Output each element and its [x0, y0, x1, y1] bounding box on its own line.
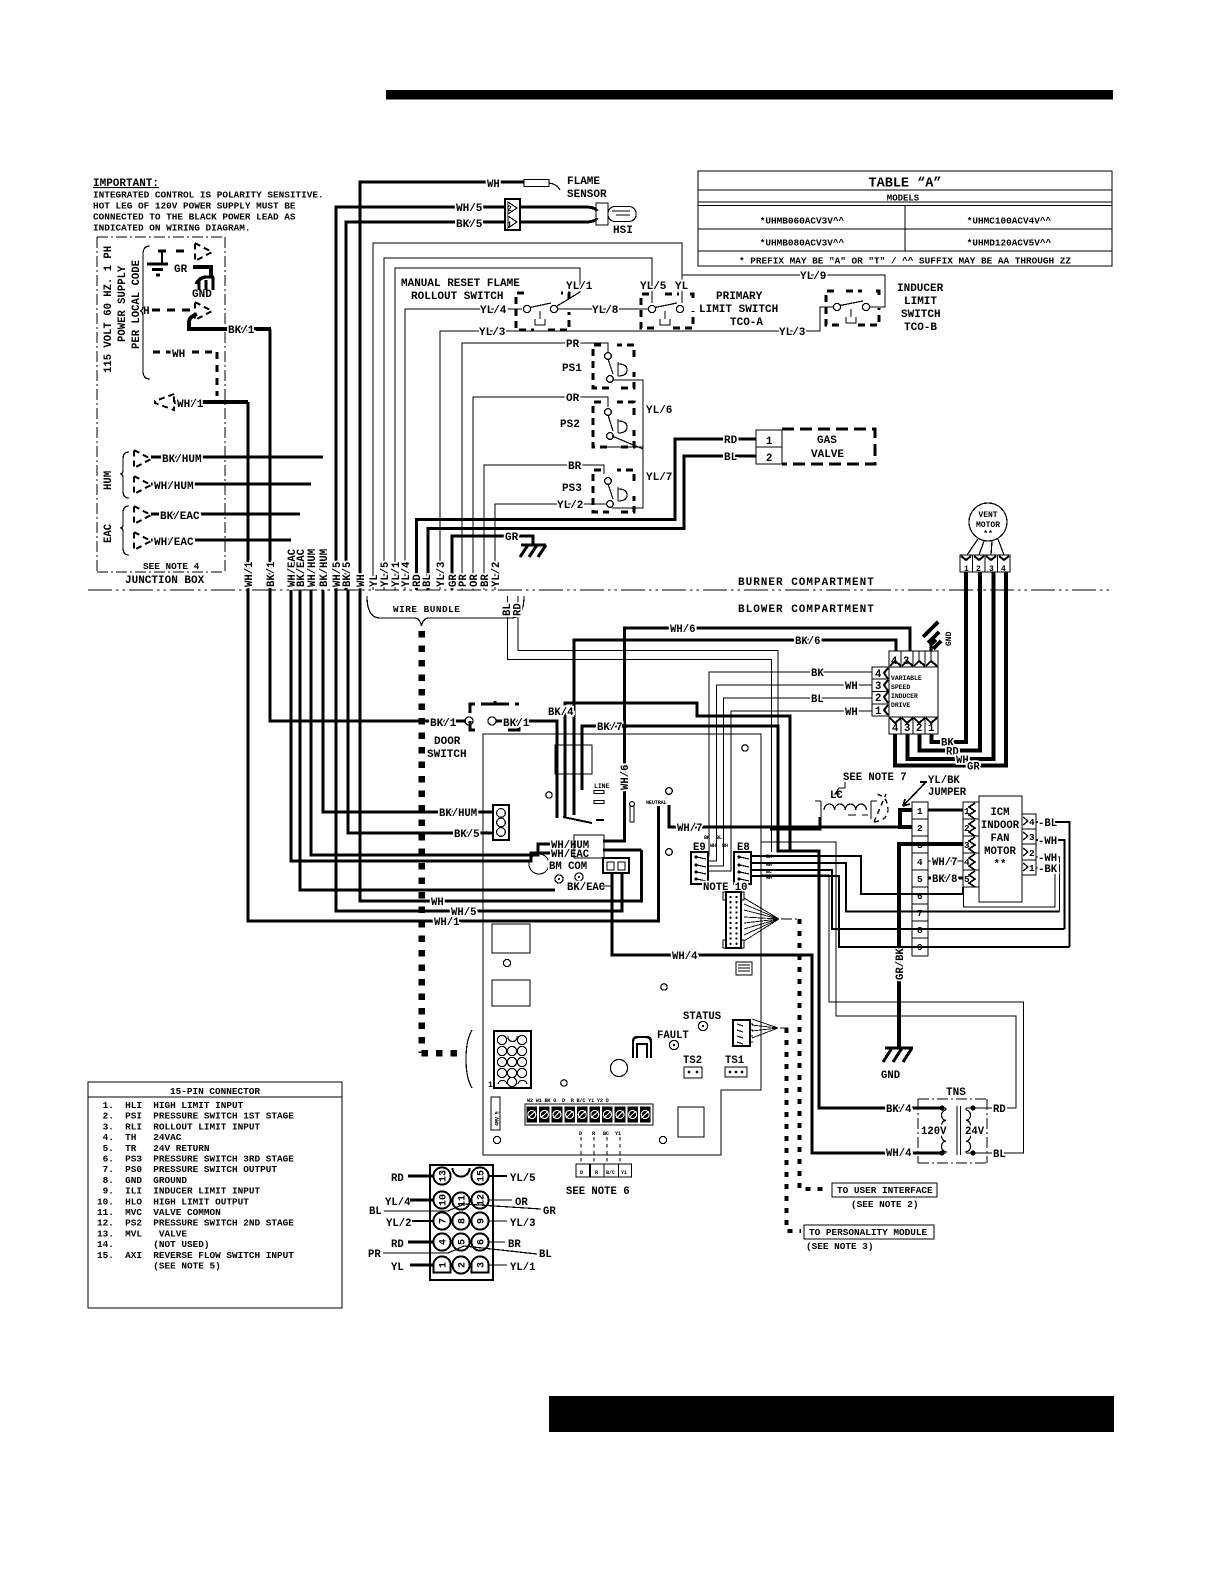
svg-text:D: D	[579, 1131, 582, 1137]
jumper wire pins 1-2	[900, 810, 912, 827]
wire BK/1 junction to door switch	[270, 329, 466, 721]
svg-text:YL/9: YL/9	[800, 271, 826, 283]
chassis dashed line vertical	[418, 631, 425, 1053]
wire WH/5 left entry	[336, 590, 622, 911]
svg-text:LIMIT SWITCH: LIMIT SWITCH	[699, 304, 778, 316]
wire YL pin1	[410, 1264, 433, 1267]
svg-text:GR/BK: GR/BK	[895, 948, 907, 980]
connector plug BK/HUM	[134, 450, 151, 468]
wire YL (to TCO-A / YL/9)	[373, 243, 682, 590]
inducer drive top connector	[889, 651, 938, 668]
svg-text:TS2: TS2	[683, 1055, 702, 1067]
svg-text:7. PS0 PRESSURE SWITCH OUTPU: 7. PS0 PRESSURE SWITCH OUTPUT	[97, 1164, 277, 1175]
wire BK icm1	[964, 868, 1056, 907]
wire WH/HUM left entry	[311, 590, 550, 855]
pressure switch PS3	[562, 470, 634, 512]
svg-text:4: 4	[892, 723, 899, 735]
svg-text:GND: GND	[945, 631, 954, 646]
svg-text:**: **	[983, 530, 993, 539]
svg-text:YL/3: YL/3	[779, 327, 806, 339]
svg-text:3. RLI ROLLOUT LIMIT INPUT: 3. RLI ROLLOUT LIMIT INPUT	[97, 1121, 261, 1132]
board screw holes	[546, 792, 552, 798]
bracket EAC	[120, 506, 129, 555]
svg-text:(SEE NOTE 5): (SEE NOTE 5)	[97, 1261, 221, 1272]
wire BL to gas valve	[428, 456, 756, 590]
svg-text:2: 2	[964, 823, 970, 834]
table A	[698, 171, 1112, 267]
svg-text:120V: 120V	[921, 1126, 947, 1138]
wire WH icm3	[1036, 840, 1065, 929]
svg-text:BR: BR	[508, 1239, 521, 1251]
svg-text:HOT LEG OF 120V POWER SUPPLY M: HOT LEG OF 120V POWER SUPPLY MUST BE	[93, 201, 296, 212]
svg-text:3: 3	[904, 723, 910, 735]
wire WH to drive 3	[708, 685, 872, 861]
svg-text:YL/2: YL/2	[557, 500, 583, 512]
svg-text:BK/1: BK/1	[430, 718, 457, 730]
svg-text:YL/6: YL/6	[646, 405, 672, 417]
svg-text:BK/1: BK/1	[266, 562, 278, 587]
wire WH/5 to HSI	[336, 207, 505, 590]
wire pin8	[751, 870, 1065, 929]
ground GND inducer	[923, 622, 954, 651]
wire YL/7 chain PS2-PS3	[612, 447, 643, 508]
wire YL/2 pin7	[412, 1220, 433, 1222]
svg-text:PS2: PS2	[560, 419, 580, 431]
svg-text:RD: RD	[993, 1104, 1006, 1116]
svg-text:6: 6	[917, 891, 923, 902]
svg-text:2: 2	[917, 823, 923, 834]
connector plug WH/1	[155, 394, 174, 410]
ground GND blower	[883, 1048, 913, 1062]
wire BK/4	[565, 703, 942, 1108]
wire YL/2	[495, 504, 606, 590]
board relay	[555, 745, 592, 774]
svg-text:BK/5: BK/5	[456, 219, 483, 231]
svg-text:4: 4	[917, 857, 923, 868]
svg-text:YL: YL	[675, 281, 689, 293]
svg-text:1: 1	[917, 806, 923, 817]
svg-text:115 VOLT 60 HZ. 1 PH: 115 VOLT 60 HZ. 1 PH	[103, 246, 115, 373]
svg-text:INDOOR: INDOOR	[981, 820, 1020, 832]
wire vent 3	[908, 572, 994, 759]
svg-text:*: *	[484, 831, 489, 840]
board 2-cell connector	[603, 858, 629, 873]
svg-text:BK/1: BK/1	[503, 718, 530, 730]
wire YL/4 pin10	[410, 1199, 433, 1202]
wire YL/4	[405, 309, 522, 590]
component fuse	[491, 1097, 501, 1130]
led STATUS	[698, 1021, 707, 1030]
bottom footer bar	[549, 1396, 1114, 1432]
wire labels at bundle	[244, 548, 503, 587]
rollout switch	[516, 293, 569, 330]
wire RD (24v to board)	[518, 596, 778, 852]
svg-text:5: 5	[458, 1239, 469, 1245]
svg-text:*UHMD120ACV5V^^: *UHMD120ACV5V^^	[967, 238, 1052, 249]
screw terminals BK/EAC	[555, 875, 563, 883]
svg-text:TCO-B: TCO-B	[904, 322, 937, 334]
svg-text:BK/EAC: BK/EAC	[567, 882, 606, 894]
component BM COM	[529, 854, 549, 874]
svg-text:4. TH 24VAC: 4. TH 24VAC	[97, 1132, 182, 1143]
component jack	[736, 962, 752, 975]
wire BK/8 pin5	[928, 877, 963, 880]
dashed line to personality module	[787, 1028, 802, 1231]
svg-text:MOTOR: MOTOR	[984, 846, 1016, 858]
wire vent 4	[895, 572, 1006, 766]
svg-text:TABLE “A”: TABLE “A”	[869, 177, 942, 192]
svg-text:2: 2	[458, 1262, 469, 1268]
connector 15-pin diagram	[430, 1165, 493, 1280]
svg-text:BL: BL	[716, 835, 722, 841]
label WH/HUM WH/EAC	[551, 835, 604, 861]
component buzzer	[611, 1060, 628, 1077]
board 3-pin connector	[493, 805, 509, 840]
junction box outline	[97, 237, 225, 572]
wire WH/7 board to pin2	[669, 805, 912, 827]
svg-text:1. HLI HIGH LIMIT INPUT: 1. HLI HIGH LIMIT INPUT	[97, 1100, 244, 1111]
wire GR/BK pin3	[899, 844, 963, 1048]
svg-text:1: 1	[766, 436, 772, 448]
wire WH to drive 1	[708, 711, 872, 871]
inductor LC	[770, 801, 877, 829]
svg-text:12: 12	[477, 1194, 488, 1206]
wire BK/5 left entry	[348, 590, 494, 833]
ICM zigzag connector	[963, 802, 979, 887]
vent motor	[969, 503, 1007, 541]
svg-text:WH: WH	[845, 681, 858, 693]
wire YL/9 to TCO-B	[682, 275, 885, 307]
wire RD pin13	[408, 1175, 433, 1178]
wire WH left entry	[360, 590, 642, 901]
component clip	[633, 1037, 651, 1058]
door switch	[427, 701, 519, 761]
svg-text:2. PSI PRESSURE SWITCH 1ST S: 2. PSI PRESSURE SWITCH 1ST STAGE	[97, 1111, 294, 1122]
wire YL/8	[558, 308, 648, 310]
svg-text:12. PS2 PRESSURE SWITCH 2ND: 12. PS2 PRESSURE SWITCH 2ND STAGE	[97, 1218, 294, 1229]
wire BK/EAC	[151, 513, 300, 516]
svg-text:BK/6: BK/6	[795, 636, 820, 648]
svg-text:TS1: TS1	[725, 1055, 744, 1067]
chassis dashed line horizontal	[422, 1050, 463, 1057]
svg-text:WH/6: WH/6	[670, 624, 695, 636]
svg-text:WH/7: WH/7	[677, 823, 702, 835]
svg-text:2: 2	[1029, 848, 1035, 859]
wire pin1 to ICM 1	[928, 809, 963, 812]
inducer drive left connector	[872, 667, 889, 718]
svg-text:BR: BR	[568, 461, 582, 473]
switch TCO-A	[641, 294, 693, 328]
svg-text:1: 1	[439, 1262, 450, 1268]
svg-text:HUM: HUM	[103, 471, 115, 490]
wire bundle brace	[367, 596, 524, 626]
svg-text:10: 10	[439, 1194, 450, 1206]
svg-text:BM COM: BM COM	[549, 861, 587, 873]
connector TS1	[725, 1067, 747, 1077]
label 115V power supply	[103, 246, 143, 373]
svg-text:INDUCER: INDUCER	[891, 693, 918, 700]
svg-text:7: 7	[917, 908, 923, 919]
svg-text:YL/2: YL/2	[491, 562, 503, 587]
harness user interface	[744, 898, 779, 941]
svg-text:3: 3	[875, 681, 881, 693]
svg-text:TNS: TNS	[946, 1087, 966, 1099]
wire vent 2	[920, 572, 981, 751]
svg-text:BL: BL	[369, 1206, 382, 1218]
svg-text:BK/HUM: BK/HUM	[439, 808, 477, 820]
svg-text:PR: PR	[368, 1249, 381, 1261]
svg-text:GR: GR	[505, 532, 519, 544]
svg-text:SEE NOTE 4: SEE NOTE 4	[143, 561, 200, 572]
svg-text:-WH: -WH	[1038, 836, 1057, 848]
svg-text:WH/EAC: WH/EAC	[551, 849, 590, 861]
svg-text:LC: LC	[830, 790, 843, 802]
svg-text:FAN: FAN	[990, 833, 1009, 845]
wire BK/HUM left entry	[323, 590, 494, 812]
svg-text:5. TR 24V RETURN: 5. TR 24V RETURN	[97, 1143, 210, 1154]
svg-text:5: 5	[964, 874, 970, 885]
gas valve	[782, 429, 875, 464]
svg-text:RD: RD	[724, 435, 738, 447]
svg-text:GR: GR	[967, 762, 980, 774]
connector plug (hot)	[195, 243, 212, 261]
svg-text:BK/4: BK/4	[548, 707, 574, 719]
svg-text:VALVE: VALVE	[811, 449, 844, 461]
connector plug WH/EAC	[134, 532, 151, 550]
svg-text:5: 5	[917, 874, 923, 885]
svg-text:*UHMC100ACV4V^^: *UHMC100ACV4V^^	[967, 216, 1052, 227]
svg-text:4MV 5: 4MV 5	[495, 1111, 501, 1126]
svg-text:1: 1	[875, 706, 881, 718]
svg-text:8: 8	[458, 1218, 469, 1224]
wire YL/3 pin9	[489, 1220, 507, 1222]
wire WH/7 pin4	[928, 860, 963, 862]
svg-text:INTEGRATED CONTROL IS POLARITY: INTEGRATED CONTROL IS POLARITY SENSITIVE…	[93, 190, 324, 201]
svg-text:9. ILI INDUCER LIMIT INPUT: 9. ILI INDUCER LIMIT INPUT	[97, 1186, 261, 1197]
wire YL/5 pin15	[489, 1175, 507, 1177]
svg-text:POWER SUPPLY: POWER SUPPLY	[117, 265, 129, 342]
svg-text:WH/4: WH/4	[672, 951, 698, 963]
wire BK/6	[574, 640, 896, 815]
svg-text:JUMPER: JUMPER	[928, 787, 967, 799]
svg-text:BLOWER COMPARTMENT: BLOWER COMPARTMENT	[738, 604, 875, 616]
svg-text:B/C: B/C	[606, 1170, 615, 1176]
svg-text:YL: YL	[391, 1262, 404, 1274]
svg-text:TO PERSONALITY MODULE: TO PERSONALITY MODULE	[809, 1227, 928, 1238]
svg-text:JUNCTION BOX: JUNCTION BOX	[125, 575, 205, 587]
bracket HUM	[120, 452, 129, 498]
wire BR pin6	[489, 1241, 505, 1243]
svg-text:WH/1: WH/1	[434, 917, 459, 929]
svg-text:WH/EAC: WH/EAC	[154, 537, 194, 549]
svg-text:8: 8	[917, 925, 923, 936]
svg-text:SEE NOTE 7: SEE NOTE 7	[843, 772, 907, 784]
svg-text:* PREFIX MAY BE "A" OR "T" / ^: * PREFIX MAY BE "A" OR "T" / ^^ SUFFIX M…	[739, 256, 1071, 267]
svg-text:BC: BC	[603, 1131, 609, 1137]
wire BK/7	[582, 726, 790, 851]
wire WH/HUM	[151, 483, 311, 486]
svg-text:MANUAL RESET FLAME: MANUAL RESET FLAME	[401, 278, 520, 290]
led FAULT	[669, 1040, 678, 1049]
svg-text:RD: RD	[391, 1173, 404, 1185]
power supply bracket	[140, 246, 150, 379]
wire YL/3	[440, 307, 834, 590]
svg-text:WH: WH	[710, 843, 716, 849]
connector 9-pin	[912, 802, 928, 956]
svg-text:(SEE NOTE 2): (SEE NOTE 2)	[851, 1199, 919, 1210]
svg-text:BK/1: BK/1	[228, 325, 255, 337]
box to user interface	[832, 1183, 937, 1210]
wire pin9	[751, 876, 1070, 947]
svg-text:YL/7: YL/7	[646, 472, 672, 484]
svg-text:7: 7	[439, 1218, 450, 1224]
svg-text:15: 15	[477, 1170, 488, 1182]
compartment divider	[88, 589, 1110, 591]
svg-text:SENSOR: SENSOR	[567, 189, 607, 201]
wire BL tns	[761, 875, 1024, 1153]
svg-text:IMPORTANT:: IMPORTANT:	[93, 178, 159, 190]
vent motor connector	[960, 539, 1010, 574]
svg-text:GND: GND	[881, 1070, 900, 1082]
svg-text:WH/HUM: WH/HUM	[154, 481, 194, 493]
svg-text:3: 3	[1029, 832, 1035, 843]
wire RD pin4	[408, 1241, 433, 1244]
board 15-pin connector	[466, 1030, 531, 1090]
svg-text:BL: BL	[724, 452, 738, 464]
svg-text:VARIABLE: VARIABLE	[891, 675, 922, 682]
connector plug BK/EAC	[134, 506, 151, 524]
svg-text:WIRE BUNDLE: WIRE BUNDLE	[393, 604, 460, 615]
svg-text:WH/4: WH/4	[886, 1148, 912, 1160]
svg-text:RD: RD	[391, 1239, 404, 1251]
svg-text:6: 6	[477, 1239, 488, 1245]
switch TCO-B	[826, 291, 879, 325]
svg-text:4: 4	[1029, 817, 1035, 828]
dashed line to user interface	[800, 919, 827, 1189]
svg-text:GR: GR	[543, 1206, 556, 1218]
ICM right connector	[1022, 814, 1036, 875]
svg-text:SWITCH: SWITCH	[901, 309, 941, 321]
wire YL/5	[384, 258, 652, 590]
wire BL icm4	[1036, 822, 1070, 947]
svg-text:H: H	[143, 306, 150, 318]
pressure switch PS1	[562, 345, 634, 388]
svg-text:2: 2	[916, 723, 922, 735]
svg-text:W2 W1 BK G D R B/C Y1 Y2 O: W2 W1 BK G D R B/C Y1 Y2 O	[527, 1098, 609, 1104]
table 15-pin connector legend	[88, 1082, 342, 1308]
svg-text:1: 1	[1029, 863, 1035, 874]
wire BK/1 from plug	[189, 314, 271, 329]
svg-text:*UHMB060ACV3V^^: *UHMB060ACV3V^^	[760, 216, 845, 227]
svg-text:PS1: PS1	[562, 363, 582, 375]
connector E8	[734, 842, 751, 884]
wire BK/EAC left entry	[300, 590, 555, 890]
svg-text:BK/EAC: BK/EAC	[160, 511, 200, 523]
svg-text:2: 2	[766, 453, 772, 465]
motor ICM indoor fan	[979, 796, 1022, 902]
svg-text:NEUTRAL: NEUTRAL	[646, 800, 666, 806]
wire BK/HUM	[151, 456, 323, 459]
wire WH to flame sensor	[360, 182, 524, 590]
svg-text:WH/HUM: WH/HUM	[307, 549, 319, 587]
svg-text:OR: OR	[566, 393, 580, 405]
wire BR	[484, 465, 604, 590]
svg-text:-BL: -BL	[1038, 818, 1057, 830]
wire WH/EAC left entry	[291, 590, 550, 861]
svg-text:BK/5: BK/5	[454, 829, 479, 841]
svg-text:YL/4: YL/4	[385, 1197, 411, 1209]
connector wire nut	[874, 794, 888, 822]
variable speed inducer drive	[889, 667, 938, 717]
box to personality module	[804, 1225, 934, 1252]
svg-text:14. (NOT USED): 14. (NOT USED)	[97, 1239, 210, 1250]
svg-text:WH/7: WH/7	[932, 857, 957, 869]
wire BK/1 door switch to board	[496, 721, 557, 818]
wire WH/6	[603, 628, 910, 841]
svg-text:BURNER COMPARTMENT: BURNER COMPARTMENT	[738, 577, 875, 589]
wire pin6	[766, 854, 773, 881]
svg-text:SPEED: SPEED	[891, 684, 910, 691]
svg-text:BK/HUM: BK/HUM	[162, 454, 202, 466]
transformer TNS	[918, 1087, 987, 1163]
svg-text:YL/5: YL/5	[510, 1173, 535, 1185]
svg-text:YL/3: YL/3	[510, 1218, 535, 1230]
svg-text:WH/5: WH/5	[456, 203, 483, 215]
harness personality module	[752, 1019, 778, 1038]
wire RD tns	[761, 842, 1016, 1108]
wire BL (24v to board)	[508, 596, 772, 852]
flame sensor	[524, 176, 607, 201]
svg-text:YL/5: YL/5	[640, 281, 667, 293]
pressure switch PS2	[560, 402, 643, 449]
connector 20-pin	[723, 892, 744, 948]
svg-text:ROLLOUT SWITCH: ROLLOUT SWITCH	[411, 291, 503, 303]
control board outline	[483, 734, 761, 1155]
svg-text:D: D	[580, 1170, 583, 1176]
svg-text:2: 2	[507, 205, 512, 214]
connector E9	[691, 842, 708, 884]
terminal strip	[525, 1104, 653, 1125]
svg-text:-BK: -BK	[1038, 864, 1058, 876]
svg-text:RD: RD	[513, 603, 525, 616]
svg-text:10. HLO HIGH LIMIT OUTPUT: 10. HLO HIGH LIMIT OUTPUT	[97, 1196, 249, 1207]
svg-text:13. MVL VALVE: 13. MVL VALVE	[97, 1228, 187, 1239]
svg-text:1: 1	[507, 221, 512, 230]
svg-text:HSI: HSI	[613, 225, 633, 237]
svg-text:PS3: PS3	[562, 483, 582, 495]
wire pin7	[751, 863, 1060, 912]
svg-text:MODELS: MODELS	[887, 194, 920, 204]
svg-text:YL/8: YL/8	[592, 305, 619, 317]
svg-text:11: 11	[458, 1195, 469, 1207]
dashed drops to note boxes	[581, 1137, 620, 1164]
wire WH dashed	[153, 352, 217, 396]
svg-text:WH/1: WH/1	[244, 562, 256, 587]
svg-text:ICM: ICM	[990, 807, 1009, 819]
svg-text:WH: WH	[356, 574, 368, 587]
svg-text:WH/1: WH/1	[177, 399, 204, 411]
svg-text:PER LOCAL CODE: PER LOCAL CODE	[131, 260, 143, 349]
svg-text:TO USER INTERFACE: TO USER INTERFACE	[837, 1185, 933, 1196]
svg-text:GAS: GAS	[817, 435, 837, 447]
svg-text:11. MVC VALVE COMMON: 11. MVC VALVE COMMON	[97, 1207, 221, 1218]
svg-text:4: 4	[964, 857, 970, 868]
svg-text:BK/5: BK/5	[342, 562, 354, 587]
wire PR	[462, 343, 608, 590]
wire RD to gas valve	[417, 439, 757, 590]
wire PR pin5	[383, 1246, 537, 1254]
svg-text:BK/7: BK/7	[597, 722, 622, 734]
